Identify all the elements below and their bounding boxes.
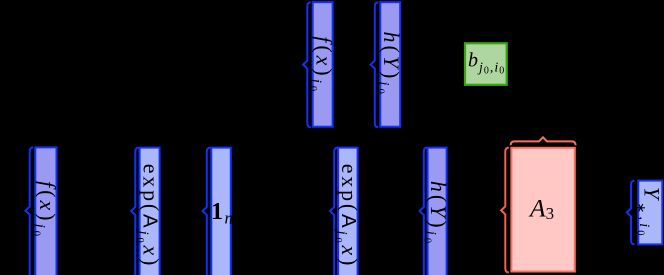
scalar b_j0,i0 (green square) xyxy=(465,43,507,85)
vector h(Y)_i0 (bottom) xyxy=(422,148,452,275)
brace for vector exp(A_j0 x) (second) xyxy=(330,148,338,275)
top brace of matrix A3 xyxy=(511,137,576,145)
vector 1_n (ones vector) xyxy=(211,148,235,275)
brace for vector 1_n xyxy=(203,148,211,275)
vector h(Y)_i0 (top) xyxy=(375,2,405,127)
vector f(x)_j0 (bottom left) xyxy=(30,147,60,275)
matrix A3 (pink rectangle) xyxy=(511,148,574,272)
vector f(x)_j0 (top) xyxy=(307,2,337,127)
vector exp(A_j0 x) (first) xyxy=(134,148,164,275)
vector exp(A_j0 x) (second) xyxy=(332,148,362,275)
brace for vector h(Y)_i0 (top) xyxy=(371,2,379,127)
brace for vector Y_*,i0 xyxy=(627,181,635,245)
left brace of matrix A3 xyxy=(501,148,509,273)
brace for vector h(Y)_i0 (bottom) xyxy=(420,148,428,275)
brace for vector f(x)_j0 (bottom left) xyxy=(26,147,34,275)
vector Y_*,i0 xyxy=(634,181,664,245)
brace for vector exp(A_j0 x) (first) xyxy=(131,148,139,275)
brace for vector f(x)_j0 (top) xyxy=(303,2,311,127)
